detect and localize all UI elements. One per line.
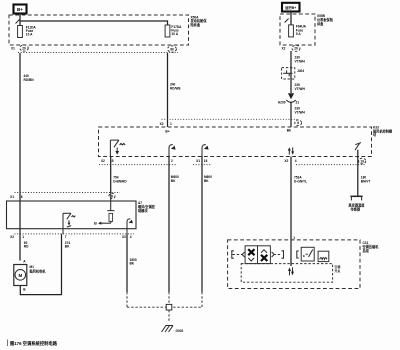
svg-text:BN/VT: BN/VT: [361, 180, 371, 184]
caption: [8, 340, 58, 348]
connector pin 80: [168, 46, 177, 52]
compressor control assembly (dashed box): [228, 240, 360, 289]
svg-text:开关: 开关: [335, 268, 341, 273]
svg-text:E: E: [303, 254, 305, 258]
svg-text:BK: BK: [171, 179, 176, 183]
pin 8 callout: [295, 120, 302, 126]
svg-text:BK: BK: [204, 179, 209, 183]
wire 374 BK: [65, 241, 71, 249]
svg-text:B6: B6: [287, 128, 291, 132]
clutch coil: [318, 251, 329, 261]
svg-text:20: 20: [294, 47, 298, 51]
wire 239 VT/WH seg3: [290, 102, 292, 128]
svg-text:4: 4: [295, 159, 297, 163]
pin X1:16: [193, 159, 212, 164]
svg-text:总成: 总成: [363, 248, 370, 253]
svg-text:RD/BN: RD/BN: [24, 78, 35, 82]
power symbol B+: [14, 5, 27, 14]
svg-text:19: 19: [360, 159, 364, 163]
svg-text:RD/WE: RD/WE: [170, 87, 181, 91]
ground bus (dashed): [126, 292, 128, 307]
pin 8 callout A7: [109, 193, 115, 198]
fan switch icon: [245, 246, 257, 264]
connector X2 pin 20: [282, 45, 301, 51]
svg-text:X3: X3: [122, 235, 126, 239]
svg-text:5 A: 5 A: [296, 32, 302, 36]
module A7 box: [7, 201, 137, 229]
splice tick: [16, 19, 20, 23]
wire M600 BK (left): [168, 157, 170, 293]
svg-text:20: 20: [22, 46, 26, 50]
label fuse block X50A: [190, 15, 208, 27]
wire 440 RD/BN: [19, 53, 21, 261]
svg-text:80: 80: [170, 47, 174, 51]
svg-text:RD: RD: [24, 245, 29, 249]
svg-text:Ei: Ei: [94, 222, 97, 226]
svg-text:运行B+: 运行B+: [285, 5, 296, 10]
svg-text:10 A: 10 A: [26, 33, 33, 37]
svg-text:B+: B+: [165, 129, 169, 133]
wire 754 D-BN/RD: [110, 157, 112, 193]
wire bus to fuse F17DA: [20, 21, 168, 25]
wire 239 VT/WH seg1: [290, 51, 292, 93]
svg-text:M1: M1: [30, 265, 35, 269]
svg-text:VT/WH: VT/WH: [295, 60, 306, 64]
pressure switch: [297, 247, 314, 261]
connector line (dotted): [18, 52, 178, 54]
motor return wire: [20, 234, 61, 295]
svg-text:X2: X2: [10, 235, 14, 239]
svg-text:8: 8: [111, 194, 113, 198]
label module K33: [373, 126, 393, 138]
svg-text:X2: X2: [282, 47, 286, 51]
svg-text:4: 4: [130, 235, 132, 239]
ground pin symbol 1: [169, 145, 176, 157]
svg-text:G002: G002: [176, 329, 184, 333]
connector X1 pin 20: [11, 45, 28, 51]
svg-text:制模块: 制模块: [138, 208, 148, 213]
svg-text:BK: BK: [130, 262, 135, 266]
label module A7: [138, 201, 156, 213]
wire B+ to fuse block: [19, 14, 21, 26]
pin X2:4: [284, 159, 296, 163]
pin X2:15: [101, 159, 114, 163]
svg-text:险丝盒: 险丝盒: [191, 22, 201, 27]
ground G002: [162, 326, 184, 333]
svg-text:鼓风机电机: 鼓风机电机: [30, 269, 47, 274]
module K33 (dashed box): [99, 127, 372, 157]
wire 60 RD: [24, 241, 29, 249]
svg-text:图176 空调系统控制电路: 图176 空调系统控制电路: [10, 340, 58, 347]
svg-text:D-GN/YL: D-GN/YL: [294, 180, 307, 184]
svg-text:BK: BK: [65, 245, 70, 249]
svg-text:X1: X1: [10, 195, 14, 199]
svg-text:X2: X2: [101, 159, 105, 163]
svg-text:16: 16: [204, 159, 208, 163]
A7 internal: output pin symbol: [127, 219, 133, 234]
wire 239 VT/WH seg2: [295, 83, 306, 91]
svg-text:M: M: [18, 273, 22, 278]
wire M600 BK (right): [201, 157, 203, 293]
svg-text:X1: X1: [11, 47, 15, 51]
connector line bottom right (dotted): [296, 164, 366, 166]
svg-text:X1: X1: [196, 159, 200, 163]
inner dashed box: [241, 264, 332, 283]
splice J404: [282, 68, 305, 79]
svg-text:J404: J404: [297, 69, 304, 73]
inline connector A200: [278, 93, 299, 104]
svg-text:X2: X2: [284, 159, 288, 163]
AC snowflake switch icon: [258, 246, 271, 264]
svg-text:10 A: 10 A: [171, 32, 178, 36]
svg-text:X2: X2: [160, 122, 164, 126]
pin 19: [359, 158, 366, 164]
svg-text:A200: A200: [278, 100, 286, 104]
connector line A7 top (dotted): [15, 192, 121, 194]
svg-text:VT/WH: VT/WH: [295, 87, 306, 91]
fuse block X50B (dashed): [280, 14, 315, 45]
wire to fuse F64UA: [290, 12, 292, 25]
connector line A7 bottom (dotted): [15, 233, 135, 235]
pin labels A7 bottom: [10, 235, 132, 239]
svg-text:7: 7: [65, 235, 67, 239]
svg-text:D-BN/RD: D-BN/RD: [113, 180, 127, 184]
svg-text:8: 8: [297, 121, 299, 125]
svg-text:B+: B+: [17, 7, 23, 12]
label fuse block X50B: [316, 14, 334, 26]
wire 180 BN/VT: [357, 157, 359, 197]
connector line bottom left (dotted): [99, 164, 176, 166]
A7 internal: blower control switch: [63, 213, 75, 234]
fuse F11DA: [18, 25, 37, 37]
blower motor M1: [14, 260, 46, 292]
svg-text:2: 2: [171, 159, 173, 163]
wire 240 RD/WE: [167, 53, 169, 127]
pin X2:1 top: [160, 122, 172, 133]
fuse F64UA: [289, 25, 307, 37]
svg-text:21: 21: [296, 100, 300, 104]
svg-text:1: 1: [22, 235, 24, 239]
ground node: [166, 304, 172, 310]
svg-text:1: 1: [170, 122, 172, 126]
pass-through arrows assembly: [288, 267, 294, 275]
switch symbol K33 right: [355, 143, 361, 157]
blower relay symbol: [110, 140, 125, 156]
splice tick: [285, 19, 289, 23]
svg-text:1: 1: [293, 236, 295, 240]
pin X1:6: [10, 195, 23, 199]
connector line K33 top (dotted): [162, 118, 298, 120]
svg-text:传感器: 传感器: [350, 207, 361, 212]
AC switch leads right: [272, 251, 284, 258]
ground pin symbol 2: [202, 145, 209, 157]
A7 internal: input element: [94, 193, 115, 226]
svg-text:VT/WH: VT/WH: [295, 111, 306, 115]
wire 753A D-GN/YL: [290, 157, 292, 267]
inner box label: [335, 264, 341, 273]
svg-text:丝盒: 丝盒: [317, 21, 324, 26]
label compressor assembly: [363, 241, 380, 253]
AC switch leads left: [232, 251, 245, 258]
svg-text:6: 6: [21, 195, 23, 199]
fuse block X50A (dashed): [9, 15, 189, 45]
power symbol RUN: [282, 3, 300, 12]
evaporator temperature sensor: [349, 196, 366, 211]
pass-through arrows K33: [288, 147, 294, 155]
wire 1850 BK: [126, 234, 128, 292]
fuse F17DA: [165, 25, 182, 37]
